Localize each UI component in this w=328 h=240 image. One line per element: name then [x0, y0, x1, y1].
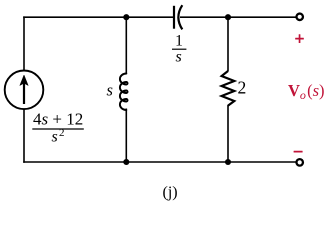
wire resistor branch upper — [227, 16, 229, 71]
inductor L1 coil — [120, 74, 128, 111]
wire bottom horizontal — [23, 161, 296, 163]
svg-text:1: 1 — [175, 33, 183, 50]
svg-text:4s + 12: 4s + 12 — [33, 110, 83, 129]
node junction bottom-left — [123, 159, 129, 165]
wire inductor branch lower — [125, 109, 127, 163]
wire left vertical upper — [23, 16, 25, 71]
capacitor C1 right curved plate — [178, 5, 182, 29]
wire top-right horizontal — [180, 16, 297, 18]
node junction top-left — [123, 14, 129, 20]
capacitor C1 left plate — [173, 6, 175, 29]
wire top-left horizontal — [23, 16, 174, 18]
current source I1 circle — [5, 71, 44, 110]
svg-text:2: 2 — [238, 77, 247, 97]
label minus sign — [294, 151, 303, 153]
wire resistor branch lower — [227, 105, 229, 163]
node junction bottom-right — [225, 159, 231, 165]
resistor R1 zigzag — [222, 71, 235, 106]
label plus sign — [295, 34, 304, 43]
node junction top-right — [225, 14, 231, 20]
terminal bottom open circle — [296, 159, 303, 166]
svg-text:2: 2 — [59, 127, 65, 139]
wire inductor branch upper — [125, 16, 127, 74]
terminal top open circle — [296, 14, 303, 21]
wire left vertical lower — [23, 110, 25, 163]
current source arrow — [20, 75, 28, 104]
current source value label 4s+12/s^2 — [32, 110, 84, 146]
svg-text:Vo(s): Vo(s) — [288, 81, 325, 102]
capacitor value label 1/s — [172, 33, 186, 66]
svg-text:s: s — [52, 129, 58, 146]
svg-text:(j): (j) — [163, 184, 178, 201]
svg-text:s: s — [176, 49, 182, 66]
svg-text:s: s — [107, 81, 113, 100]
